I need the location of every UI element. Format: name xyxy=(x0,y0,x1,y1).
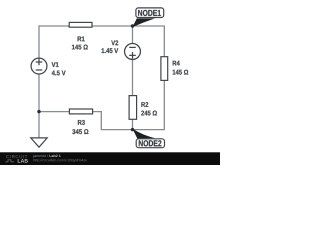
resistor R2 body xyxy=(129,96,137,120)
footer title text xyxy=(33,155,48,158)
resistor R3 designator label xyxy=(78,120,85,125)
wire: R4 bottom down, along bottom rail, up to R3 right terminal xyxy=(93,81,164,130)
resistor R2 designator label xyxy=(141,102,148,107)
wire: top rail from V1 top up and across to R4 top xyxy=(39,26,164,58)
resistor R3 body xyxy=(69,109,92,114)
resistor R4 value label 145 ohm xyxy=(173,70,189,75)
node NODE1 junction dot xyxy=(131,24,134,27)
node NODE2 junction dot xyxy=(131,128,134,131)
node NODE1 label xyxy=(138,10,161,16)
wire: stub from top rail down to V2 top xyxy=(132,26,134,43)
ground xyxy=(31,138,47,147)
voltage source V2 designator label xyxy=(111,40,118,45)
resistor R1 value label 145 ohm xyxy=(72,45,88,50)
node junction dot V1/R3 xyxy=(37,110,40,113)
resistor R1 body xyxy=(69,22,92,27)
footer url text xyxy=(34,159,88,162)
wire: R2 bottom down to bottom rail xyxy=(132,120,134,130)
node NODE2 flag pointer xyxy=(133,129,156,139)
voltage source V1 designator label xyxy=(52,62,59,67)
footer CircuitLab logo xyxy=(6,155,27,158)
node NODE2 label xyxy=(139,140,162,146)
resistor R3 value label 345 ohm xyxy=(72,129,88,134)
voltage source V1 xyxy=(31,58,47,74)
footer bar xyxy=(0,152,220,165)
resistor R2 value label 245 ohm xyxy=(141,111,157,116)
node NODE1 flag pointer xyxy=(133,18,156,27)
resistor R4 designator label xyxy=(173,61,180,66)
voltage source V1 value label 4.5 V xyxy=(52,71,66,76)
resistor R1 designator label xyxy=(78,37,85,42)
node NODE2 flag box xyxy=(136,139,164,148)
wire: V1 bottom down to ground xyxy=(38,75,40,139)
node NODE1 flag box xyxy=(136,8,164,18)
voltage source V2 value label 1.45 V xyxy=(102,48,119,53)
resistor R4 body xyxy=(161,57,168,81)
wire: V2 bottom down to R2 top xyxy=(132,60,134,96)
voltage source V2 xyxy=(125,44,141,60)
wire: R3 left terminal to left rail xyxy=(39,111,69,113)
